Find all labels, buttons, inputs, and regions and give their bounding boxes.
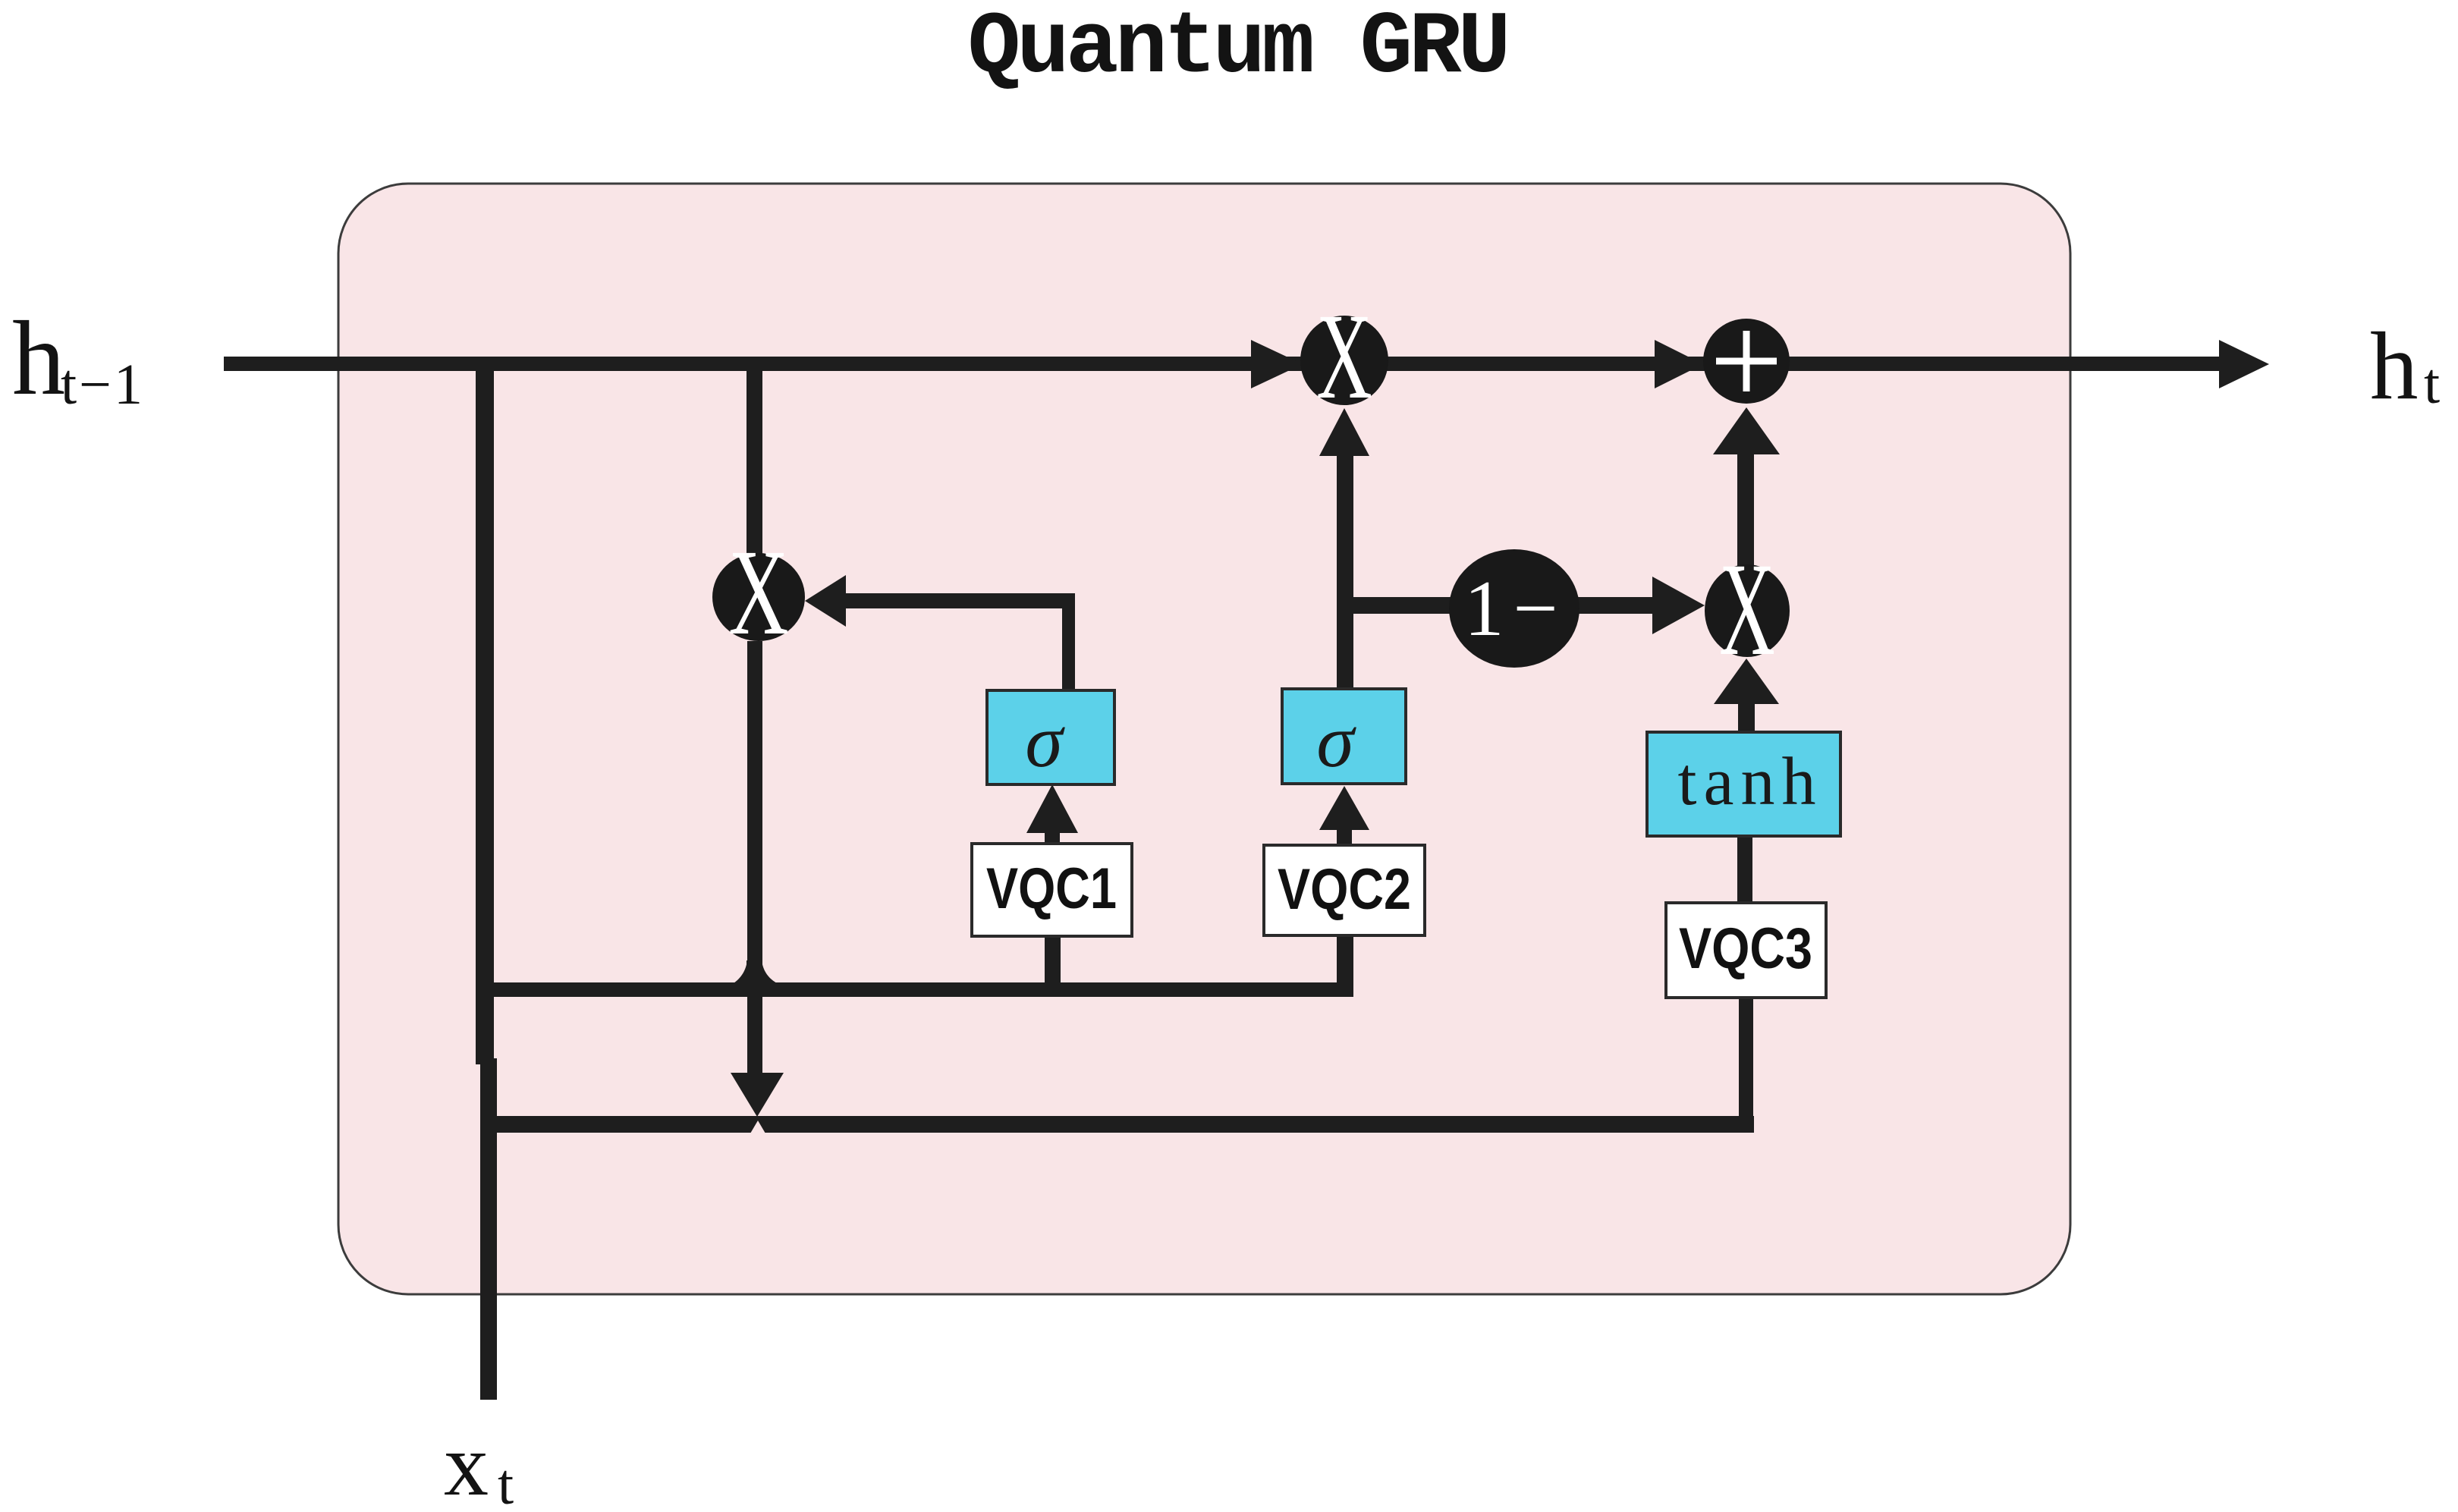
svg-text:tanh: tanh bbox=[1678, 744, 1823, 819]
svg-text:VQC1: VQC1 bbox=[986, 857, 1117, 921]
svg-text:h: h bbox=[2370, 313, 2419, 420]
svg-text:t: t bbox=[498, 1453, 514, 1512]
svg-text:VQC3: VQC3 bbox=[1679, 916, 1812, 981]
svg-text:h: h bbox=[12, 300, 65, 417]
svg-text:VQC2: VQC2 bbox=[1278, 857, 1411, 922]
svg-text:X: X bbox=[1316, 288, 1372, 424]
svg-text:X: X bbox=[1719, 536, 1775, 684]
svg-text:x: x bbox=[444, 1415, 489, 1512]
svg-text:X: X bbox=[728, 524, 789, 660]
svg-text:σ: σ bbox=[1025, 699, 1065, 783]
svg-text:t−1: t−1 bbox=[61, 353, 145, 417]
svg-text:σ: σ bbox=[1316, 699, 1356, 783]
svg-text:t: t bbox=[2424, 352, 2440, 416]
svg-text:Quantum GRU: Quantum GRU bbox=[968, 0, 1507, 98]
svg-text:1−: 1− bbox=[1464, 564, 1567, 652]
